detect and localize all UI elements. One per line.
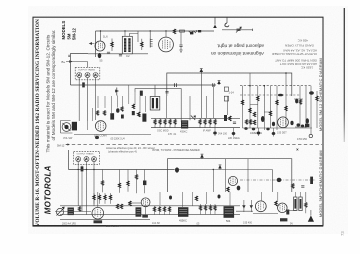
wire R20-23 rails	[94, 193, 111, 204]
transistor Q1	[77, 73, 82, 78]
capacitor C22 blob	[266, 128, 269, 131]
svg-text:MODELS: MODELS	[61, 21, 66, 40]
resistor R4 box	[180, 30, 185, 32]
antenna arrow at V1 grid	[90, 43, 95, 45]
resistor R32	[257, 96, 259, 101]
tube V9 electrodes	[231, 178, 235, 185]
junction dots bus2	[78, 169, 215, 170]
T3 hatch	[137, 210, 141, 214]
wire risers right	[261, 192, 300, 201]
resistor R18 dark	[310, 177, 313, 184]
svg-text:IF AMP: IF AMP	[203, 130, 211, 133]
capacitor C14b blob	[116, 108, 119, 113]
cluster lower mid tube V9	[228, 176, 237, 185]
volume control P2	[62, 123, 71, 132]
transformer TA hatch	[182, 122, 187, 126]
svg-text:ADJ A1, A2, A3, A4 MAX: ADJ A1, A2, A3, A4 MAX	[283, 49, 317, 53]
resistor R3 on bus	[173, 29, 175, 34]
tube V3	[95, 121, 106, 132]
wire lower rail A	[60, 205, 240, 207]
electrolytic E1 bar	[294, 199, 296, 209]
jack J1 cluster	[305, 124, 309, 127]
wire DB1 top feed	[87, 62, 89, 68]
transformer TA dark	[181, 120, 188, 128]
svg-text:MODEL 5M SCHEMATIC DIAGRAM: MODEL 5M SCHEMATIC DIAGRAM	[319, 150, 323, 217]
resistor R40	[245, 120, 247, 125]
label 504 lower	[280, 218, 287, 221]
resistor R10	[103, 111, 105, 116]
cluster CB cap	[233, 122, 236, 123]
wire bus y85	[71, 84, 217, 86]
resistor group GC	[153, 206, 170, 215]
svg-text:(chassis effective pos 4): (chassis effective pos 4)	[108, 150, 137, 154]
wire R15 leads	[127, 170, 129, 192]
page border box	[33, 17, 323, 226]
tube V6 electrodes	[95, 209, 101, 218]
diode D2	[250, 205, 253, 208]
coil L2 dark	[68, 208, 74, 216]
svg-text:GEN THRU 200 MMF TO ANT: GEN THRU 200 MMF TO ANT	[275, 59, 317, 63]
svg-text:.05 220K 1U4: .05 220K 1U4	[110, 138, 125, 141]
wire Q3 drop	[95, 78, 97, 121]
capacitor C7 on bus	[175, 83, 177, 87]
svg-text:MOTOROLA: MOTOROLA	[44, 165, 53, 214]
wire rod end tick	[252, 29, 254, 31]
resistor R7	[253, 112, 255, 117]
speaker cone SP1	[308, 215, 314, 221]
resistor R12	[132, 104, 134, 109]
wire vertical x213.5	[213, 85, 215, 118]
wire V6 stem	[97, 192, 99, 207]
transistor Q3	[93, 73, 98, 78]
tube V1 electrodes	[98, 43, 102, 50]
svg-text:OUTPUT TRANS: OUTPUT TRANS	[78, 69, 95, 72]
svg-text:Antenna effective (pos 23,: Antenna effective (pos 23, 24 - RF wires…	[106, 146, 155, 150]
resistor R19	[78, 207, 80, 212]
resistor R35	[285, 106, 287, 111]
wire V7 cluster tie	[253, 213, 278, 215]
IF transformer T4 dark	[178, 207, 188, 217]
wire riser x138	[137, 31, 139, 42]
resistor group GD	[199, 204, 216, 214]
transistor Q2	[85, 73, 90, 78]
svg-text:47K .01: 47K .01	[168, 133, 177, 136]
capacitor C9 blob	[278, 94, 283, 97]
label V6 dark	[94, 220, 103, 223]
capacitor C11 blob	[306, 118, 309, 124]
resistor R31	[249, 108, 251, 113]
wire R14 leads	[119, 170, 121, 193]
cluster CB dark	[224, 115, 227, 121]
wire S1 leads	[61, 121, 73, 134]
resistor group GB	[199, 118, 216, 127]
capacitor C19 blob	[295, 99, 298, 104]
wire R28 leads	[305, 192, 307, 213]
svg-text:IN 5M, T3 50/60 - POWER: IN 5M, T3 50/60 - POWER DELIVERED	[152, 148, 200, 152]
wire box line y88.5	[135, 89, 181, 122]
capacitor C6	[119, 55, 122, 56]
wire R16 leads	[136, 170, 138, 194]
tube V2 oscillator	[159, 37, 174, 52]
scan noise overlay	[28, 6, 348, 234]
tube V10	[141, 198, 150, 207]
wire E1 tie	[287, 210, 296, 212]
tube V1 converter	[95, 41, 105, 51]
svg-text:VOLUME R-16. MOST-OFTEN-NEEDED: VOLUME R-16. MOST-OFTEN-NEEDED 1962 RADI…	[35, 19, 41, 227]
wire R1 leads	[111, 39, 113, 52]
wire D1 lead	[243, 200, 245, 212]
label V10 dark	[142, 215, 148, 218]
tube V2 plate tick	[165, 31, 167, 37]
antenna post A blob	[213, 25, 217, 28]
wire bottom tie	[243, 127, 313, 129]
wire Q5 drop	[86, 162, 88, 215]
chassis symbol G3	[200, 154, 204, 159]
svg-text:1L6: 1L6	[103, 35, 108, 39]
ground C4	[179, 46, 183, 52]
svg-text:73: 73	[340, 231, 345, 236]
junction blobs on rail	[95, 136, 99, 139]
wire box inner	[174, 170, 272, 193]
wire T2 feed	[154, 85, 156, 97]
pot P3 cluster	[137, 112, 147, 122]
antenna post B hook	[225, 23, 229, 27]
tube V8	[278, 203, 288, 213]
capacitor C5 blob	[98, 53, 102, 58]
resistor R39 dark under DB2	[81, 166, 84, 171]
resistor R13	[101, 181, 103, 186]
wire diode tie	[236, 210, 253, 212]
resistor R28	[305, 203, 307, 208]
capacitor C16 blob	[277, 178, 282, 182]
svg-text:1U4 68: 1U4 68	[152, 222, 160, 225]
resistor R7b	[253, 120, 255, 125]
wire speaker corner	[295, 126, 306, 128]
capacitor C18 dark	[286, 210, 289, 215]
capacitor C17	[301, 186, 304, 187]
capacitor C4	[179, 45, 182, 46]
wire vertical x225	[225, 159, 227, 192]
resistor R22	[104, 195, 106, 200]
wire right verticals	[243, 73, 318, 135]
electrolytic EA	[224, 87, 228, 91]
svg-text:1-14: 1-14	[229, 91, 235, 95]
capacitor C10 blob	[261, 116, 265, 122]
junction dot	[196, 30, 198, 32]
wire vertical x213	[212, 170, 214, 193]
resistor R30	[241, 100, 243, 105]
resistor R20	[93, 195, 95, 200]
wire risers mid	[160, 192, 230, 207]
chassis symbol G4	[218, 165, 222, 170]
wire drop x181	[180, 32, 182, 44]
wire mid verticals	[88, 85, 146, 130]
svg-text:9V: 9V	[290, 223, 293, 226]
T4 hatch	[179, 209, 187, 213]
tube V8 electrodes	[280, 204, 285, 211]
resistor R34	[276, 100, 278, 105]
resistor R14	[118, 183, 120, 188]
wire V10 stem	[145, 207, 147, 215]
resistor R16	[135, 175, 137, 180]
adjacent page edge line	[343, 8, 345, 142]
wire Q4 drop	[77, 162, 79, 206]
wire dashdot AVC lower	[240, 179, 316, 181]
wire antenna post B	[226, 18, 228, 24]
wire antenna post A	[214, 18, 216, 25]
T5 hatch	[225, 209, 233, 214]
capacitor C13 blob	[297, 123, 301, 126]
IF cluster T3 dark	[136, 207, 142, 216]
junction blob B1	[175, 167, 179, 172]
wire lower rail C	[60, 219, 150, 221]
junction dot JC	[285, 72, 287, 74]
resistor R38	[195, 196, 197, 201]
wire tuner rail	[55, 211, 91, 213]
svg-text:This material is exact for Mod: This material is exact for Models 5M and…	[46, 34, 52, 152]
capacitor C24 blob	[169, 196, 172, 200]
svg-text:455KC: 455KC	[180, 131, 188, 134]
wire C15 lead	[144, 170, 146, 194]
resistor R1	[111, 42, 113, 47]
svg-text:455 KC: 455 KC	[297, 39, 308, 43]
resistor R21	[98, 195, 100, 200]
wire T1 top leads	[125, 31, 138, 36]
trimmer A1 plates	[237, 29, 241, 31]
svg-text:C2: C2	[126, 54, 130, 58]
transformer T5 dark	[224, 206, 235, 218]
wire Q6 drop	[93, 162, 95, 206]
resistor R37	[227, 187, 229, 192]
electrolytic EB	[224, 96, 228, 101]
resistor R15	[127, 181, 129, 186]
capacitor C25 blob	[218, 195, 221, 199]
capacitor C28 blob	[301, 125, 304, 128]
capacitor CF4	[272, 128, 276, 137]
oscillator coil L1	[150, 39, 152, 48]
wire Q1 drop	[78, 78, 80, 122]
chassis symbol G1	[200, 68, 204, 73]
svg-text:2000 A4 1R5: 2000 A4 1R5	[62, 223, 76, 226]
svg-text:OSC MOD: OSC MOD	[157, 130, 169, 133]
component chain blob2	[198, 30, 201, 32]
resistor R41	[249, 120, 251, 125]
trimmer A1	[236, 27, 241, 33]
resistor R25	[120, 204, 122, 209]
transistor Q4	[76, 157, 81, 162]
svg-text:1S5 400: 1S5 400	[243, 222, 253, 225]
svg-text:5M-12: 5M-12	[57, 143, 65, 147]
tube V4 electrodes	[281, 118, 286, 126]
svg-text:100K .02 3V4: 100K .02 3V4	[106, 225, 121, 228]
capacitor C14 dark	[110, 113, 114, 119]
svg-text:3V4 100: 3V4 100	[218, 133, 228, 136]
wire lower rail B	[60, 214, 240, 216]
electrolytic E2	[299, 197, 302, 211]
svg-text:B+: B+	[62, 60, 66, 64]
capacitor C23 blob	[237, 186, 241, 191]
svg-text:OUTPUT WITH GANG CLOSED: OUTPUT WITH GANG CLOSED	[271, 52, 317, 56]
dashed box DB1	[75, 67, 100, 79]
capacitor C15 dark	[143, 181, 146, 186]
page border bottom rule	[33, 225, 324, 227]
resistor R33	[269, 111, 271, 116]
capacitor C29 dark	[121, 115, 124, 119]
svg-text:1620 KC: 1620 KC	[300, 66, 313, 70]
wire stub SB	[250, 104, 258, 106]
transistor Q6	[92, 157, 97, 162]
wire G1 drop	[200, 73, 202, 118]
wire R2 stub	[141, 39, 143, 50]
electrolytic E2 bar	[300, 199, 302, 209]
wire bus y73	[167, 73, 292, 96]
capacitor C12 blob	[309, 91, 314, 94]
IF transformer T2	[150, 97, 160, 111]
switch S1 blob	[72, 122, 77, 131]
svg-text:MODEL 5M-12 SCHEMATIC DIAGRAM: MODEL 5M-12 SCHEMATIC DIAGRAM	[319, 58, 323, 131]
wire left feed	[70, 54, 88, 85]
wire lower rail left	[74, 134, 151, 136]
tick on separator	[297, 149, 299, 151]
svg-text:GANG FULLY OPEN: GANG FULLY OPEN	[285, 44, 314, 48]
wire Q2 drop	[87, 78, 89, 122]
svg-text:Alignment information on: Alignment information on	[211, 50, 264, 56]
dashed separator between schematics	[66, 143, 322, 145]
svg-text:1R5 CONV: 1R5 CONV	[94, 134, 107, 138]
wire V10 left	[128, 202, 141, 204]
junction dots top bus	[100, 30, 167, 31]
capacitor C8	[165, 92, 168, 93]
dashed box DB2	[74, 151, 100, 164]
wire V1 top lead	[100, 31, 102, 41]
component chain C3	[189, 31, 197, 33]
tube V3 electrodes	[98, 122, 103, 130]
svg-text:adjacent page at right.: adjacent page at right.	[217, 43, 264, 49]
capacitor C1	[107, 52, 110, 53]
svg-text:of Models 5M and 5M-12 are cor: of Models 5M and 5M-12 are corresponding…	[51, 30, 57, 141]
svg-text:22K 1MEG: 22K 1MEG	[228, 137, 240, 140]
wire R13 leads	[102, 170, 104, 193]
tuning capacitor VC1	[56, 207, 64, 215]
svg-text:5M-12: 5M-12	[72, 27, 77, 40]
resistor R6 dark	[140, 91, 143, 96]
jack J1 ring	[309, 134, 312, 137]
capacitor CF1	[213, 128, 217, 136]
wire D2 lead	[250, 200, 252, 212]
capacitor C7b	[212, 83, 214, 87]
component chain blob	[190, 32, 193, 35]
wire stub SC	[264, 111, 271, 113]
resistor R8	[299, 100, 301, 105]
pot P4 dark	[191, 116, 196, 120]
svg-text:ADJ A5 A6 FOR MAX OUT: ADJ A5 A6 FOR MAX OUT	[280, 62, 317, 66]
resistor R36	[316, 96, 318, 101]
tube V6	[92, 207, 104, 219]
wire box outline top	[168, 159, 292, 192]
wire left riser	[95, 31, 97, 57]
svg-text:1S5 DET: 1S5 DET	[277, 132, 287, 135]
capacitor CF3	[257, 128, 261, 136]
wire bottom rail	[88, 53, 148, 55]
wire B plus arrow	[66, 61, 88, 63]
resistor R17	[292, 184, 294, 189]
wire drops to rails	[166, 96, 227, 120]
junction dot JA	[249, 85, 251, 87]
IF transformer T1	[122, 36, 132, 54]
wire DB2 left feed	[68, 150, 70, 170]
coil L2 hatch	[69, 210, 73, 214]
svg-text:455KC: 455KC	[179, 219, 187, 223]
cluster CB resistor	[229, 116, 231, 121]
resistor group GA	[154, 118, 176, 127]
capacitor CF2	[232, 128, 236, 137]
wire top bus	[96, 30, 215, 32]
svg-text:OUTPUT TRANS: OUTPUT TRANS	[77, 153, 94, 156]
wire AVC dashed	[240, 85, 311, 87]
resistor R24	[116, 204, 118, 209]
wire coil top	[149, 31, 151, 39]
transistor Q5	[84, 157, 89, 162]
svg-text:VOL SW: VOL SW	[63, 137, 73, 140]
resistor R9	[96, 111, 98, 116]
potentiometer P1	[116, 88, 119, 96]
wire antenna rod	[222, 29, 253, 31]
chassis symbol G2	[217, 80, 221, 85]
capacitor C21 blob	[252, 128, 255, 131]
wire rail A	[151, 117, 240, 119]
resistor R11	[121, 107, 123, 112]
tube V4	[278, 117, 289, 128]
wire bus y169.5	[69, 169, 175, 171]
tube V7 electrodes	[258, 203, 263, 211]
electrolytic E1	[294, 197, 297, 211]
wire Q5b drop	[81, 166, 83, 212]
wire vertical x248	[247, 159, 249, 192]
resistor R23	[109, 195, 111, 200]
tube V7	[255, 201, 266, 212]
wire rail B	[151, 127, 240, 129]
resistor R2	[141, 42, 143, 47]
resistor R27	[275, 201, 277, 206]
wire SP1 stem	[310, 210, 312, 215]
capacitor C30 dark	[132, 111, 135, 115]
tick on left feed	[68, 55, 70, 56]
tube V2 electrodes	[163, 40, 171, 50]
junction dot JB	[264, 85, 266, 87]
diode D1	[242, 205, 245, 208]
svg-text:4700 250: 4700 250	[297, 138, 308, 141]
resistor R5 dark	[82, 82, 85, 87]
tube V10 electrodes	[144, 199, 148, 206]
svg-text:504: 504	[226, 219, 231, 223]
arrow by label	[66, 144, 70, 146]
resistor R26	[129, 201, 131, 206]
wire stub SA	[294, 98, 303, 100]
capacitor C27 blob	[290, 121, 293, 125]
wire AVC dashed lower	[240, 94, 300, 96]
capacitor C26 blob	[272, 122, 275, 126]
svg-text:10MEG .01: 10MEG .01	[250, 132, 263, 135]
capacitor C20 blob	[244, 127, 247, 130]
